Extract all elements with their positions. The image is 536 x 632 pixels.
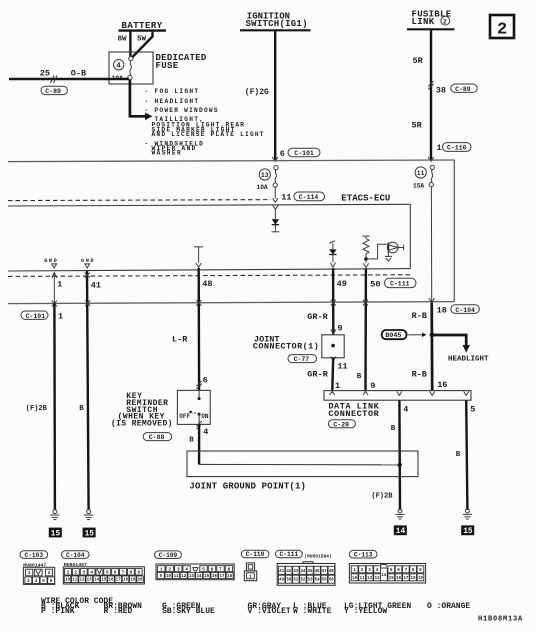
svg-text:16: 16 bbox=[437, 380, 447, 390]
inline connector mark key switch pin 6 bbox=[196, 381, 201, 389]
svg-text:1: 1 bbox=[353, 568, 356, 573]
svg-text:R :RED: R :RED bbox=[104, 607, 133, 616]
svg-text:18: 18 bbox=[437, 305, 447, 315]
ground number box 14 bbox=[394, 525, 407, 536]
inline connector mark on 5R wire bbox=[428, 81, 433, 90]
svg-text:44: 44 bbox=[300, 570, 305, 574]
label pin 11 C-114 bbox=[281, 192, 324, 202]
svg-text:12: 12 bbox=[181, 575, 187, 579]
crossing mark pin 41 at J/B bottom bbox=[85, 300, 90, 306]
ECU internal GND label pin 1 bbox=[44, 258, 57, 268]
svg-text:47: 47 bbox=[322, 570, 327, 574]
svg-text:20: 20 bbox=[137, 579, 143, 583]
connector oval C-101 bottom left bbox=[21, 311, 48, 320]
svg-text:SWITCH(IG1): SWITCH(IG1) bbox=[246, 19, 308, 29]
svg-text:15: 15 bbox=[389, 577, 394, 581]
svg-text:C-114: C-114 bbox=[299, 194, 319, 201]
wire pin 48 L-R bbox=[197, 268, 200, 391]
connector oval C-89 right bbox=[451, 84, 477, 93]
svg-text:19: 19 bbox=[418, 577, 423, 581]
ground symbol joint ground bbox=[395, 509, 404, 519]
svg-text:2: 2 bbox=[361, 568, 364, 573]
svg-text:B: B bbox=[357, 373, 362, 381]
ground symbol wire DLC5 bbox=[463, 509, 472, 519]
ECU internal transistor Q1 bbox=[366, 242, 404, 261]
svg-text:15: 15 bbox=[85, 530, 95, 538]
wire DLC pin 5 B to ground bbox=[466, 400, 467, 510]
entry chevron pin 11 at dashed edge bbox=[273, 198, 278, 202]
svg-text:V :VIOLET: V :VIOLET bbox=[248, 607, 291, 616]
wire DLC pin 4 to joint ground bbox=[398, 400, 401, 510]
svg-text:6: 6 bbox=[397, 568, 400, 573]
svg-text:GR-R: GR-R bbox=[307, 370, 328, 380]
svg-text:52: 52 bbox=[300, 579, 305, 583]
svg-text:17: 17 bbox=[219, 575, 225, 579]
fuse number circle 13 bbox=[259, 169, 270, 180]
DLC entry chevron pin 1 bbox=[330, 391, 335, 395]
svg-text:C-113: C-113 bbox=[354, 551, 373, 558]
svg-text:3: 3 bbox=[368, 568, 371, 573]
connector oval C-77 bbox=[288, 355, 317, 364]
svg-text:11: 11 bbox=[174, 575, 180, 579]
svg-text:C-89: C-89 bbox=[45, 88, 61, 95]
svg-text:C-89: C-89 bbox=[455, 86, 471, 93]
svg-text:C-103: C-103 bbox=[25, 552, 44, 559]
svg-text:45: 45 bbox=[308, 570, 313, 574]
svg-text:W :WHITE: W :WHITE bbox=[293, 607, 332, 616]
svg-text:9: 9 bbox=[137, 570, 140, 576]
connector oval C-111 mid bbox=[385, 278, 417, 287]
connector oval C-88 bbox=[143, 433, 172, 442]
ETACS-ECU box top edge bbox=[8, 204, 410, 206]
svg-text:R-B: R-B bbox=[412, 369, 427, 379]
svg-text:48: 48 bbox=[329, 570, 334, 574]
svg-text:15: 15 bbox=[51, 530, 61, 538]
svg-text:H1B08M13A: H1B08M13A bbox=[478, 616, 523, 624]
svg-text:1: 1 bbox=[249, 574, 252, 580]
ECU internal resistor pin 50 bbox=[362, 236, 369, 268]
svg-text:14: 14 bbox=[197, 575, 203, 579]
svg-text:13: 13 bbox=[261, 172, 269, 179]
svg-text:18: 18 bbox=[123, 579, 129, 583]
ECU internal diode pin 49 bbox=[329, 240, 336, 267]
wire 18 R-B bbox=[430, 303, 433, 391]
svg-text:10: 10 bbox=[352, 577, 357, 581]
svg-text:C-109: C-109 bbox=[159, 552, 178, 559]
svg-text:49: 49 bbox=[279, 579, 284, 583]
wire fuse output down bbox=[130, 80, 146, 117]
junction block bottom edge bbox=[8, 302, 454, 304]
svg-text:6: 6 bbox=[114, 570, 117, 576]
fusible link source bbox=[407, 10, 455, 30]
svg-text:1: 1 bbox=[58, 312, 63, 322]
entry mark ignition into J/B bbox=[272, 157, 278, 161]
svg-text:L-R: L-R bbox=[172, 334, 188, 344]
svg-text:R-B: R-B bbox=[412, 311, 427, 321]
svg-text:18: 18 bbox=[411, 577, 416, 581]
svg-text:5: 5 bbox=[470, 404, 475, 414]
svg-text:5R: 5R bbox=[412, 121, 423, 131]
svg-text:53: 53 bbox=[308, 579, 313, 583]
svg-text:7: 7 bbox=[122, 570, 125, 576]
ETACS-ECU dashed boundary bottom bbox=[8, 275, 410, 277]
wire F13 to ECU pin 11 bbox=[274, 187, 276, 199]
svg-text:14: 14 bbox=[396, 528, 406, 536]
connector oval C-104 mid bbox=[451, 305, 480, 314]
svg-text:Y :YELLOW: Y :YELLOW bbox=[344, 607, 387, 616]
page number box 2 bbox=[490, 15, 514, 40]
fuse F13 10A bbox=[257, 166, 279, 191]
wire headlight branch bbox=[432, 335, 466, 346]
dedicated fuse box bbox=[109, 52, 153, 84]
key reminder switch internals bbox=[179, 390, 209, 424]
svg-text:3: 3 bbox=[82, 570, 85, 576]
svg-text:7: 7 bbox=[219, 566, 222, 572]
wire F11 down inside J/B bbox=[430, 187, 432, 302]
svg-text:15: 15 bbox=[101, 579, 107, 583]
wire joint connector to DLC GR-R bbox=[331, 358, 334, 391]
junction node joint ground bbox=[398, 463, 402, 467]
svg-text:C-104: C-104 bbox=[455, 307, 475, 314]
svg-text:5: 5 bbox=[106, 570, 109, 576]
svg-text:17: 17 bbox=[403, 577, 408, 581]
svg-text:6: 6 bbox=[50, 578, 53, 584]
svg-text:C-88: C-88 bbox=[149, 434, 165, 441]
svg-text:15: 15 bbox=[463, 528, 473, 536]
svg-text:C-110: C-110 bbox=[447, 145, 467, 152]
svg-text:15A: 15A bbox=[413, 182, 424, 189]
svg-text:2: 2 bbox=[497, 21, 507, 40]
svg-text:18: 18 bbox=[227, 575, 233, 579]
junction block right edge bbox=[453, 160, 455, 302]
svg-text:O :ORANGE: O :ORANGE bbox=[427, 602, 470, 611]
svg-text:- POWER WINDOWS: - POWER WINDOWS bbox=[145, 107, 218, 114]
svg-text:C-101: C-101 bbox=[26, 313, 46, 320]
svg-text:19: 19 bbox=[130, 579, 136, 583]
svg-text:2: 2 bbox=[168, 566, 171, 572]
svg-text:AND LICENSE PLATE LIGHT: AND LICENSE PLATE LIGHT bbox=[152, 131, 264, 138]
svg-text:11: 11 bbox=[281, 192, 291, 202]
fuse F4 element bbox=[112, 56, 133, 82]
svg-text:WASHER: WASHER bbox=[152, 150, 181, 157]
svg-text:(F)2B: (F)2B bbox=[371, 493, 393, 501]
junction node on R-B wire bbox=[430, 333, 435, 338]
wire fusible link down 5R bbox=[430, 30, 432, 160]
joint ground internal bus bbox=[199, 463, 400, 465]
svg-text:GND: GND bbox=[44, 258, 57, 264]
svg-text:13: 13 bbox=[189, 575, 195, 579]
svg-text:2: 2 bbox=[443, 18, 447, 25]
svg-text:1: 1 bbox=[67, 570, 70, 576]
DLC chevron pin 5 bbox=[464, 391, 469, 395]
svg-text:P :PINK: P :PINK bbox=[41, 607, 75, 616]
svg-text:(F)2G: (F)2G bbox=[245, 88, 269, 97]
connector C-113 bbox=[349, 550, 425, 583]
svg-text:4: 4 bbox=[116, 63, 121, 71]
svg-text:49: 49 bbox=[337, 279, 347, 289]
ECU internal GND label pin 41 bbox=[81, 258, 94, 268]
svg-text:7: 7 bbox=[405, 568, 408, 573]
svg-text:46: 46 bbox=[315, 570, 320, 574]
connector C-110 bbox=[241, 550, 269, 581]
svg-text:5: 5 bbox=[390, 568, 393, 573]
wire battery feed horizontal O-B bbox=[9, 78, 129, 80]
svg-text:43: 43 bbox=[293, 570, 298, 574]
svg-text:12: 12 bbox=[79, 579, 85, 583]
inline connector mark on O-B wire bbox=[51, 76, 58, 84]
svg-text:CONNECTOR: CONNECTOR bbox=[328, 409, 379, 419]
svg-text:4: 4 bbox=[185, 566, 188, 572]
svg-text:6: 6 bbox=[203, 376, 208, 386]
svg-text:1: 1 bbox=[57, 279, 62, 289]
svg-text:B: B bbox=[189, 436, 194, 444]
svg-text:3: 3 bbox=[27, 578, 30, 584]
ETACS-ECU box bottom edge bbox=[8, 269, 410, 271]
svg-text:9: 9 bbox=[419, 568, 422, 573]
svg-text:51: 51 bbox=[293, 579, 298, 583]
fuse number circle 4 bbox=[114, 59, 124, 70]
svg-text:8: 8 bbox=[129, 570, 132, 576]
fuse F11 15A bbox=[413, 165, 434, 189]
svg-text:JOINT GROUND POINT(1): JOINT GROUND POINT(1) bbox=[189, 482, 306, 492]
entry mark fusible into J/B bbox=[428, 157, 434, 161]
exit chevron joint connector pin 11 bbox=[331, 356, 336, 360]
ground number box 15 (wire 41) bbox=[83, 528, 96, 539]
wire pin 41 B bbox=[87, 271, 89, 510]
ETACS-ECU box right edge bbox=[409, 204, 411, 268]
svg-text:38: 38 bbox=[436, 86, 446, 96]
wire color code legend bbox=[41, 597, 470, 616]
svg-text:ETACS-ECU: ETACS-ECU bbox=[341, 194, 390, 204]
DLC entry chevron pin 16 bbox=[430, 391, 435, 395]
ground symbol wire 1 bbox=[50, 510, 59, 520]
svg-text:2: 2 bbox=[75, 570, 78, 576]
crossing mark pin 41 at dashed bbox=[85, 273, 90, 278]
svg-text:14: 14 bbox=[381, 574, 386, 578]
svg-text:4: 4 bbox=[403, 404, 408, 414]
wire key switch to joint ground bbox=[198, 424, 200, 464]
svg-text:C-111: C-111 bbox=[280, 551, 299, 558]
svg-text:50: 50 bbox=[286, 579, 291, 583]
svg-text:B045: B045 bbox=[385, 332, 401, 340]
fuse number circle 11 bbox=[415, 167, 426, 178]
svg-text:10: 10 bbox=[166, 575, 172, 579]
wire pin 1 thin bbox=[53, 273, 55, 303]
svg-text:(IS REMOVED): (IS REMOVED) bbox=[111, 419, 172, 428]
svg-text:1: 1 bbox=[437, 143, 442, 153]
connector oval C-29 bbox=[328, 420, 355, 429]
svg-text:16: 16 bbox=[108, 579, 114, 583]
svg-text:41: 41 bbox=[279, 570, 284, 574]
svg-text:C-101: C-101 bbox=[294, 150, 314, 157]
ground symbol wire 41 bbox=[84, 510, 93, 520]
svg-text:2: 2 bbox=[48, 570, 51, 576]
ground number box 15 (wire 1) bbox=[49, 528, 62, 539]
svg-text:(MU801584): (MU801584) bbox=[304, 553, 332, 559]
connector C-103 bbox=[20, 551, 55, 585]
battery symbol bbox=[118, 21, 167, 44]
svg-text:ON: ON bbox=[201, 413, 209, 420]
svg-text:14: 14 bbox=[94, 579, 100, 583]
B045 callout bbox=[382, 330, 427, 340]
svg-text:55: 55 bbox=[322, 579, 327, 583]
svg-text:11: 11 bbox=[417, 170, 425, 177]
svg-text:1: 1 bbox=[28, 570, 31, 576]
svg-text:SB:SKY BLUE: SB:SKY BLUE bbox=[162, 607, 215, 616]
svg-text:C-111: C-111 bbox=[390, 281, 410, 288]
crossing mark pin 49 at J/B bottom bbox=[331, 300, 336, 306]
wire pin 49 GR-R upper bbox=[332, 268, 335, 334]
svg-text:(F)2B: (F)2B bbox=[26, 405, 48, 413]
svg-text:16: 16 bbox=[212, 575, 218, 579]
svg-text:4: 4 bbox=[90, 570, 93, 576]
ignition switch source bbox=[240, 12, 311, 31]
svg-text:C-77: C-77 bbox=[294, 356, 310, 363]
svg-text:1: 1 bbox=[160, 566, 163, 572]
svg-text:12: 12 bbox=[367, 577, 372, 581]
wire ignition IG1 down bbox=[274, 31, 276, 160]
svg-text:B: B bbox=[79, 405, 84, 413]
wire battery 8W feed bbox=[129, 31, 131, 57]
svg-text:8: 8 bbox=[228, 566, 231, 572]
svg-text:OFF: OFF bbox=[179, 413, 190, 420]
svg-text:10: 10 bbox=[65, 579, 71, 583]
svg-text:O-B: O-B bbox=[71, 69, 86, 79]
svg-text:11: 11 bbox=[360, 577, 365, 581]
label JOINT CONNECTOR(1) bbox=[253, 334, 319, 351]
svg-text:9: 9 bbox=[370, 381, 375, 391]
svg-text:48: 48 bbox=[202, 279, 212, 289]
svg-text:54: 54 bbox=[315, 579, 320, 583]
wire pin 1 thick to ground bbox=[53, 304, 56, 510]
svg-text:1: 1 bbox=[335, 381, 340, 391]
svg-text:6: 6 bbox=[211, 566, 214, 572]
crossing mark pin 48 at J/B bottom bbox=[196, 300, 201, 306]
svg-text:LINK: LINK bbox=[412, 17, 435, 27]
svg-text:25: 25 bbox=[40, 69, 50, 79]
data link connector box bbox=[324, 391, 471, 401]
svg-text:8: 8 bbox=[412, 568, 415, 573]
wire pin 50 B bbox=[364, 268, 367, 390]
svg-text:13: 13 bbox=[375, 577, 380, 581]
connector C-111 bbox=[276, 550, 336, 585]
svg-text:GND: GND bbox=[81, 258, 94, 264]
svg-text:- FOG LIGHT: - FOG LIGHT bbox=[145, 88, 199, 95]
svg-text:HEADLIGHT: HEADLIGHT bbox=[448, 355, 489, 363]
joint ground point box bbox=[187, 451, 418, 477]
svg-text:13: 13 bbox=[87, 579, 93, 583]
connector oval C-101 top bbox=[288, 148, 320, 157]
entry chevron joint connector pin 9 bbox=[331, 329, 336, 333]
DLC chevron pin 4 bbox=[397, 391, 402, 395]
svg-text:C-104: C-104 bbox=[66, 552, 85, 559]
svg-text:C-29: C-29 bbox=[333, 421, 349, 428]
label DATA LINK CONNECTOR bbox=[328, 401, 379, 419]
svg-text:- HEADLIGHT: - HEADLIGHT bbox=[145, 98, 199, 105]
svg-text:C-110: C-110 bbox=[246, 551, 265, 558]
svg-text:4: 4 bbox=[203, 427, 208, 437]
ETACS-ECU dashed boundary top bbox=[8, 200, 271, 201]
connector oval C-89 left bbox=[41, 86, 67, 95]
svg-text:5R: 5R bbox=[413, 56, 424, 66]
connector C-104 bbox=[62, 551, 145, 584]
joint connector C-77 box bbox=[322, 335, 344, 358]
svg-text:11: 11 bbox=[72, 579, 78, 583]
label KEY REMINDER SWITCH bbox=[111, 392, 172, 428]
svg-text:15: 15 bbox=[204, 575, 210, 579]
pin 1 arrow up bbox=[52, 273, 57, 278]
svg-text:3: 3 bbox=[177, 566, 180, 572]
junction block top edge bbox=[8, 160, 454, 162]
svg-text:GR-R: GR-R bbox=[307, 312, 328, 322]
svg-text:50: 50 bbox=[370, 280, 380, 290]
connector C-109 bbox=[155, 551, 235, 580]
svg-text:B: B bbox=[456, 451, 461, 459]
svg-text:16: 16 bbox=[396, 577, 401, 581]
svg-text:5: 5 bbox=[42, 578, 45, 584]
svg-text:56: 56 bbox=[329, 579, 334, 583]
svg-text:5: 5 bbox=[202, 566, 205, 572]
svg-text:B: B bbox=[391, 425, 396, 433]
arrowhead to load list bbox=[145, 113, 153, 120]
svg-text:41: 41 bbox=[91, 281, 101, 291]
svg-text:4: 4 bbox=[376, 568, 379, 573]
ECU internal element pin 48 bbox=[194, 247, 203, 268]
DLC entry chevron pin 9 bbox=[363, 391, 368, 395]
crossing mark pin 1 at J/B bottom bbox=[52, 300, 57, 306]
label 25 O-B bbox=[40, 69, 86, 79]
svg-text:8W: 8W bbox=[118, 36, 128, 44]
key reminder switch box bbox=[177, 390, 210, 424]
svg-text:11: 11 bbox=[337, 362, 347, 372]
svg-text:4: 4 bbox=[35, 578, 38, 584]
svg-text:FUSE: FUSE bbox=[156, 61, 179, 71]
wire battery 5W feed bbox=[132, 31, 153, 58]
svg-text:42: 42 bbox=[286, 570, 291, 574]
ground number box 15 (DLC5) bbox=[461, 525, 474, 536]
connector oval C-110 top bbox=[443, 143, 472, 152]
svg-text:CONNECTOR(1): CONNECTOR(1) bbox=[253, 341, 319, 351]
arrowhead headlight bbox=[463, 345, 470, 353]
svg-text:9: 9 bbox=[337, 323, 342, 333]
load list text bbox=[145, 88, 264, 156]
exit chevron wire 18 at J/B bottom bbox=[429, 298, 435, 302]
label DEDICATED FUSE bbox=[156, 53, 207, 71]
svg-text:10A: 10A bbox=[257, 184, 268, 191]
svg-text:6: 6 bbox=[280, 149, 285, 159]
svg-text:17: 17 bbox=[116, 579, 122, 583]
entry chevron pin 11 at ECU edge bbox=[273, 205, 279, 209]
crossing mark pin 50 at J/B bottom bbox=[363, 300, 368, 306]
diode D1 (pin 11 input) bbox=[272, 209, 280, 231]
inline connector mark key switch pin 4 bbox=[196, 421, 201, 429]
